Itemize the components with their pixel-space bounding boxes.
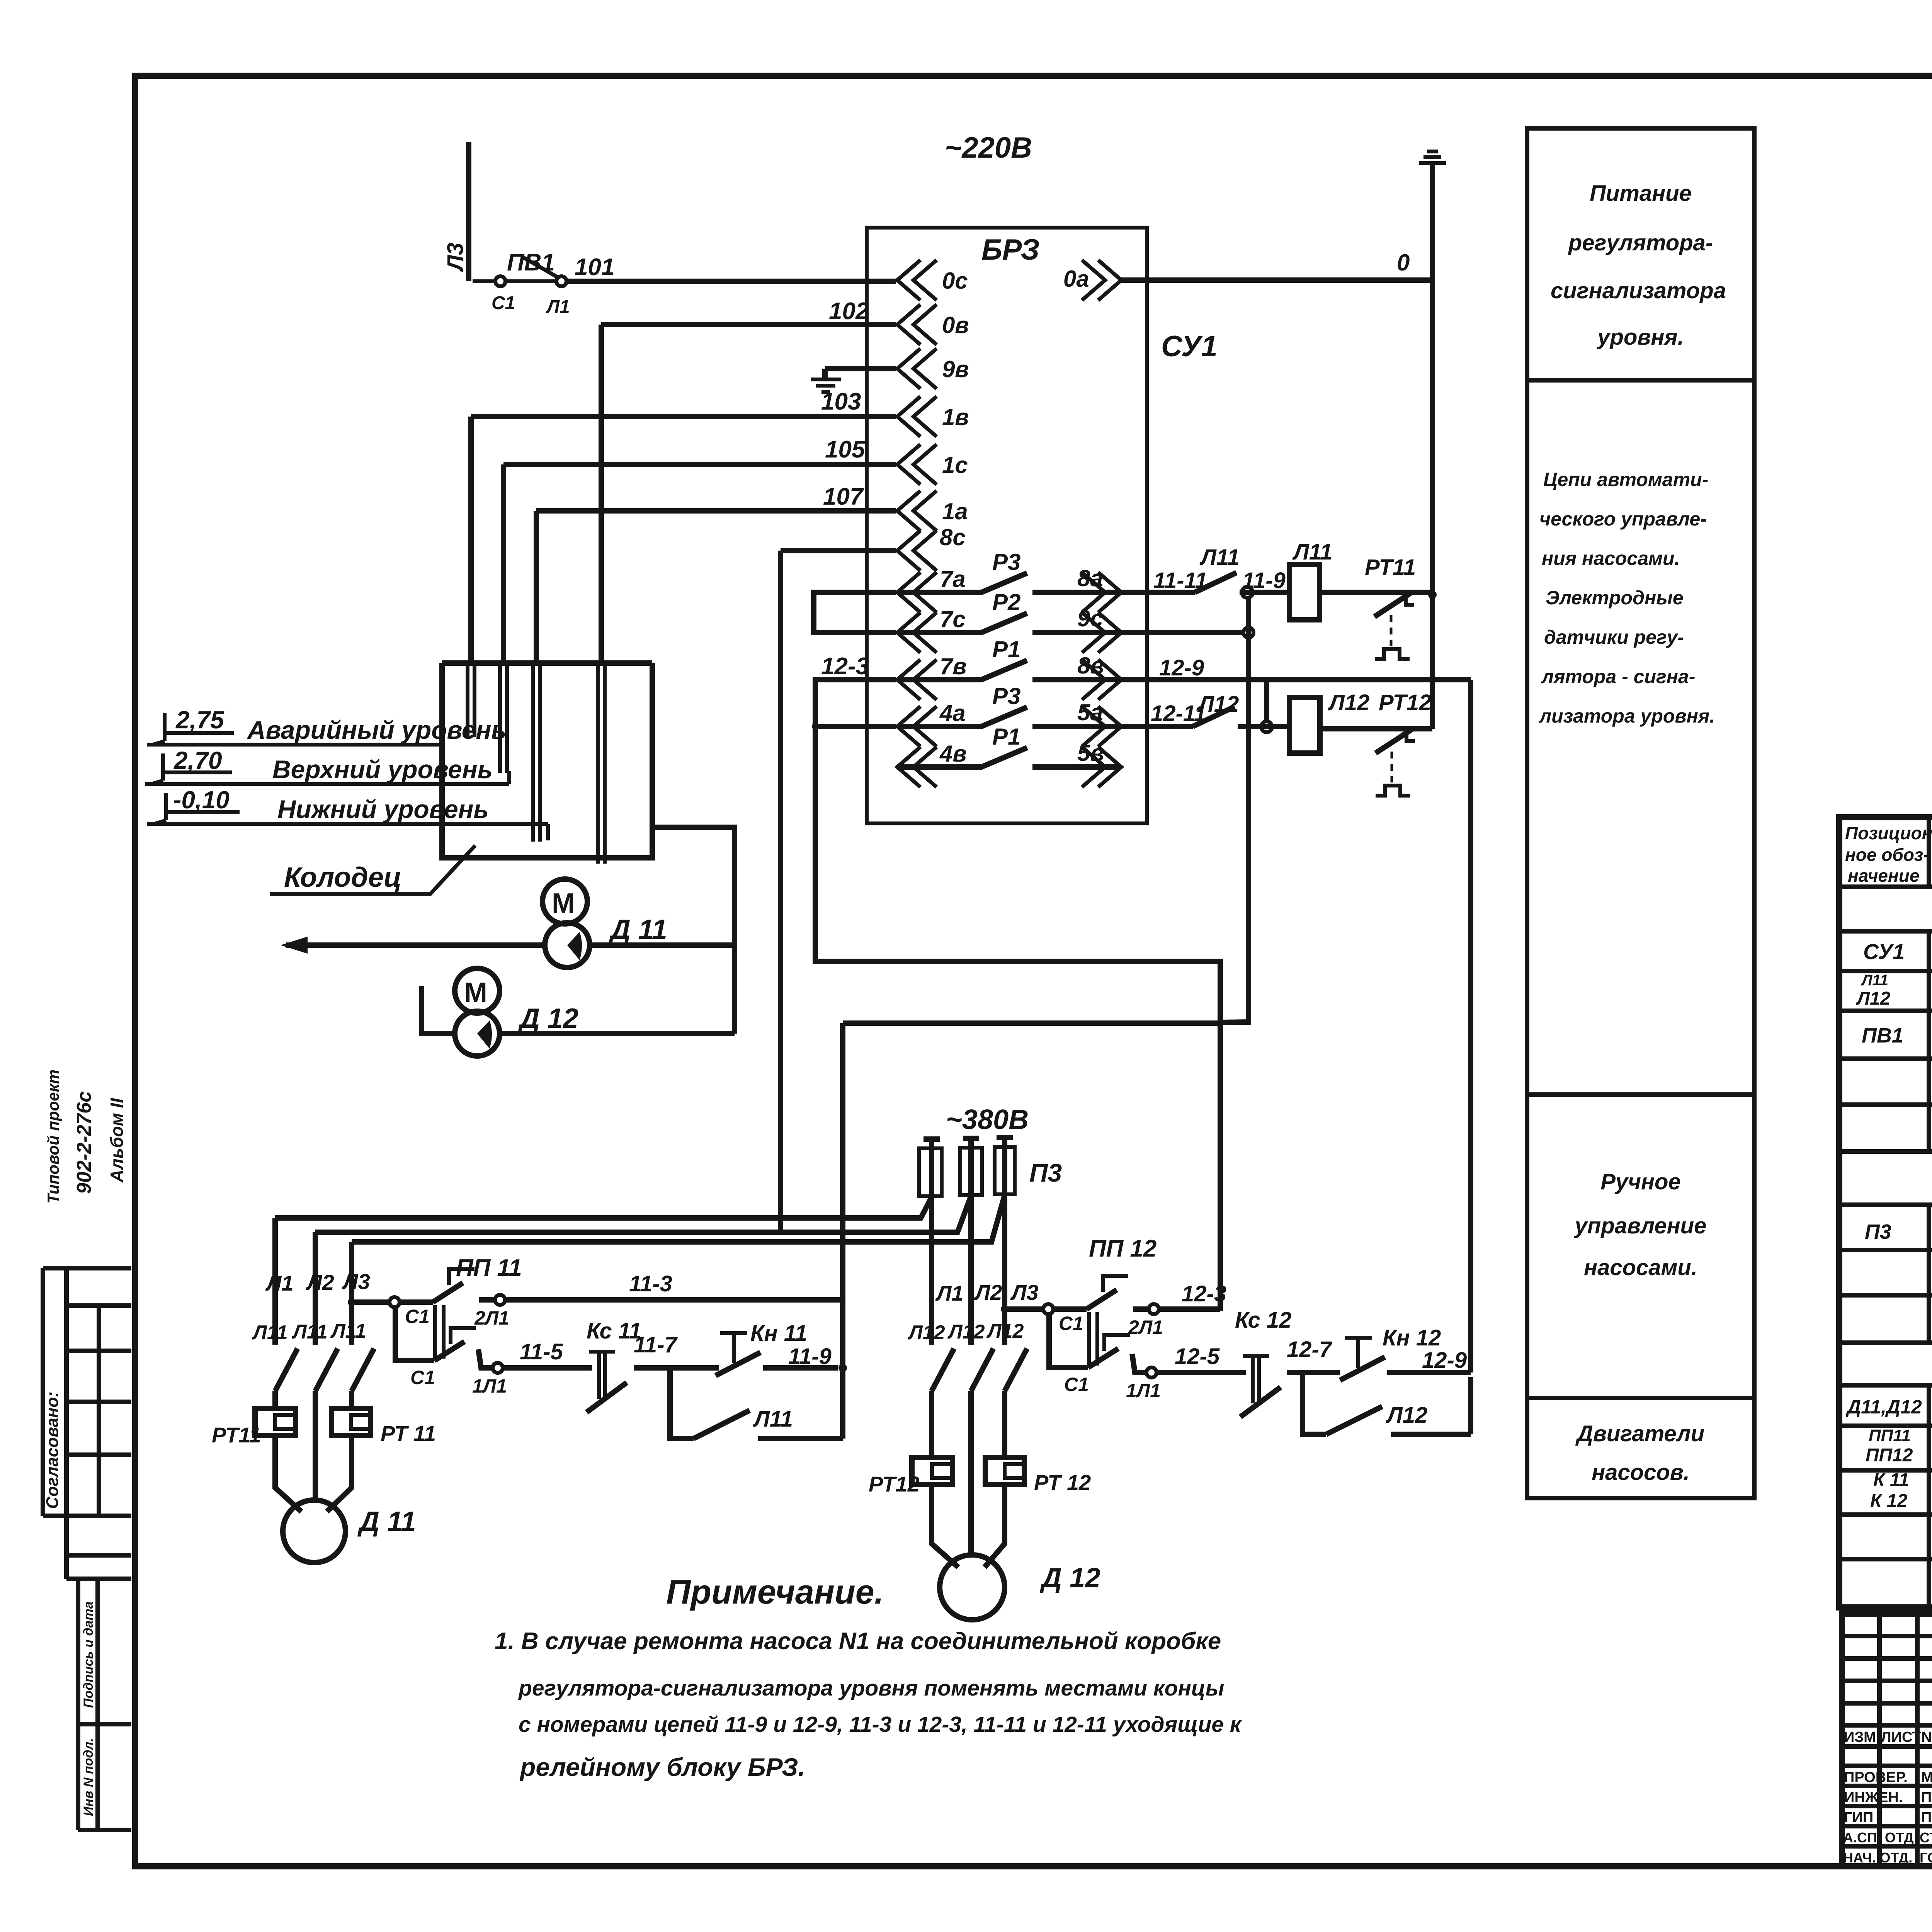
electrode tube 1: [468, 663, 474, 737]
svg-text:1Л1: 1Л1: [472, 1375, 507, 1397]
svg-text:105: 105: [825, 436, 866, 463]
svg-text:Р3: Р3: [992, 549, 1020, 575]
svg-text:ГОЛЬЦМАН: ГОЛЬЦМАН: [1920, 1850, 1932, 1866]
svg-text:ное обоз-: ное обоз-: [1845, 845, 1929, 865]
svg-text:Л2: Л2: [974, 1280, 1002, 1304]
svg-text:Л11: Л11: [1861, 972, 1888, 989]
electrode tube 4: [598, 663, 605, 864]
svg-text:ПП11: ПП11: [1869, 1426, 1911, 1445]
svg-text:7с: 7с: [940, 606, 966, 632]
svg-text:ПП12: ПП12: [1866, 1445, 1913, 1466]
svg-text:насосами.: насосами.: [1584, 1255, 1697, 1280]
wire 0 bus from ground: [1430, 163, 1435, 729]
contactor main contacts L11: [275, 1349, 374, 1391]
feeder line phase 1 to PP11: [275, 1197, 932, 1218]
svg-text:ПУКОВА: ПУКОВА: [1921, 1789, 1932, 1806]
svg-text:Р2: Р2: [992, 589, 1020, 615]
svg-text:С1: С1: [1064, 1374, 1089, 1395]
svg-text:2Л1: 2Л1: [474, 1307, 509, 1329]
svg-text:4а: 4а: [939, 700, 966, 726]
svg-text:2,70: 2,70: [173, 747, 222, 774]
svg-text:1. В случае ремонта насоса N: 1. В случае ремонта насоса N1 на соедини…: [495, 1628, 1221, 1655]
svg-text:Л12: Л12: [1197, 692, 1239, 717]
auxiliary contact L11 self-holding: [670, 1368, 843, 1439]
svg-text:5а: 5а: [1077, 699, 1103, 725]
fuse P3 phase 2: [960, 1148, 982, 1195]
svg-text:11-3: 11-3: [629, 1271, 672, 1296]
wire 101: [566, 279, 896, 284]
start button Kn11: [720, 1333, 747, 1363]
svg-text:0а: 0а: [1063, 266, 1089, 292]
svg-text:12-3: 12-3: [1182, 1281, 1226, 1306]
svg-text:ния насосами.: ния насосами.: [1542, 548, 1680, 569]
node 11-9 junction circle: [1242, 587, 1253, 598]
svg-text:101: 101: [575, 254, 614, 281]
svg-text:Кс 12: Кс 12: [1235, 1308, 1291, 1333]
coil L12: [1289, 697, 1320, 753]
svg-text:12-9: 12-9: [1422, 1348, 1467, 1373]
thermal heater RT12 phase1: [912, 1458, 952, 1485]
svg-text:Ручное: Ручное: [1600, 1169, 1680, 1194]
svg-text:ИНЖЕН.: ИНЖЕН.: [1844, 1789, 1903, 1806]
svg-text:Типовой проект: Типовой проект: [44, 1070, 62, 1204]
wire 7a-7c jumper loop: [814, 592, 896, 633]
svg-text:К 12: К 12: [1870, 1491, 1908, 1511]
svg-text:~220В: ~220В: [945, 131, 1032, 164]
svg-text:Д 11: Д 11: [608, 914, 667, 945]
electrode tube 3: [533, 663, 540, 842]
fuse P3 phase 1: [919, 1148, 942, 1196]
svg-text:107: 107: [823, 483, 864, 510]
level mark 2.75 flag: [153, 713, 234, 745]
thermal heater RT11 phase1: [255, 1408, 296, 1435]
svg-text:Л11: Л11: [1199, 545, 1240, 570]
level mark 2.70 flag: [151, 753, 232, 784]
run 12-3 down to PP12: [1218, 1022, 1223, 1311]
thermal heater RT12 phase3: [985, 1458, 1024, 1485]
svg-text:12-9: 12-9: [1159, 655, 1204, 680]
svg-text:Примечание.: Примечание.: [666, 1573, 884, 1611]
annotation: power supply section: [1551, 181, 1726, 350]
svg-text:Л11: Л11: [753, 1406, 793, 1432]
wire 0a to bus: [1121, 277, 1432, 283]
svg-text:9в: 9в: [942, 356, 969, 382]
contactor main contacts L12: [932, 1349, 1027, 1391]
svg-text:Альбом II: Альбом II: [107, 1098, 127, 1183]
ground at 9v wire: [825, 369, 896, 378]
svg-text:РТ12: РТ12: [1379, 690, 1431, 715]
annotation: automatic control section: [1539, 469, 1715, 727]
svg-text:ПРОВЕР.: ПРОВЕР.: [1844, 1769, 1908, 1786]
wire 8c to BRZ: [781, 551, 896, 1232]
svg-text:Л12: Л12: [907, 1321, 945, 1344]
wire 11-11 with contact L11: [1121, 573, 1289, 592]
BRZ input connectors (left chevrons): [897, 260, 937, 300]
svg-text:ЛИСТ: ЛИСТ: [1881, 1729, 1921, 1745]
svg-text:управление: управление: [1574, 1213, 1707, 1238]
wire 102: [601, 325, 896, 663]
terminal 2L1 and wire 12-3: [1149, 1304, 1159, 1314]
svg-text:СУ1: СУ1: [1161, 330, 1218, 363]
svg-text:С1: С1: [405, 1306, 430, 1327]
thermal contact RT11: [1320, 592, 1432, 617]
svg-text:СУ1: СУ1: [1863, 939, 1905, 964]
svg-text:Цепи автомати-: Цепи автомати-: [1543, 469, 1708, 490]
svg-text:8с: 8с: [940, 524, 966, 550]
svg-text:Л12: Л12: [947, 1321, 985, 1343]
svg-text:7в: 7в: [940, 653, 967, 679]
svg-text:Электродные: Электродные: [1546, 587, 1684, 609]
svg-text:С1: С1: [1059, 1313, 1083, 1334]
discharge pipe with arrow: [286, 942, 735, 948]
svg-text:ИЗМ.: ИЗМ.: [1844, 1729, 1880, 1745]
svg-text:МОСЕЕНКО: МОСЕЕНКО: [1921, 1769, 1932, 1786]
svg-text:Л1: Л1: [546, 297, 570, 317]
electrode tube 2: [500, 663, 507, 773]
motor D12: [940, 1555, 1005, 1620]
svg-text:Р1: Р1: [992, 636, 1020, 662]
motor D11: [283, 1500, 345, 1563]
pump chamber outline: [652, 827, 735, 1034]
svg-text:11-9: 11-9: [1242, 568, 1286, 593]
svg-text:11-9: 11-9: [788, 1344, 832, 1369]
run 11-9 vertical continuation: [840, 1300, 845, 1439]
svg-text:1с: 1с: [942, 452, 968, 478]
svg-text:Кс 11: Кс 11: [587, 1318, 641, 1344]
wire 12-3 from 7v/4a down: [815, 680, 1220, 1022]
svg-text:Д 11: Д 11: [357, 1506, 416, 1537]
suction pipe D12: [422, 986, 455, 1034]
svg-text:102: 102: [829, 298, 869, 325]
level line avariyny: [147, 743, 442, 747]
svg-text:12-5: 12-5: [1175, 1344, 1220, 1369]
wire 105: [503, 464, 896, 663]
run from node 11-9 down: [1220, 597, 1248, 1022]
svg-text:0: 0: [1397, 250, 1410, 276]
svg-text:с номерами цепей 11-9 и 12-: с номерами цепей 11-9 и 12-9, 11-3 и 12-…: [519, 1712, 1242, 1737]
terminal 2L1 and wire 11-3: [495, 1295, 505, 1305]
annotation: manual control section: [1574, 1169, 1707, 1280]
svg-text:М: М: [464, 977, 487, 1008]
svg-text:насосов.: насосов.: [1592, 1460, 1690, 1485]
stop button Ks12: [1243, 1356, 1269, 1403]
phase wires L1 L2 L3 left: [275, 1218, 352, 1345]
svg-text:Подпись и дата: Подпись и дата: [81, 1601, 96, 1708]
svg-text:Кн 12: Кн 12: [1383, 1325, 1441, 1350]
svg-text:РТ11: РТ11: [212, 1423, 261, 1447]
svg-text:Л3: Л3: [1010, 1280, 1039, 1304]
svg-text:лятора - сигна-: лятора - сигна-: [1541, 666, 1695, 687]
pump symbol D11: [545, 923, 590, 968]
level line verkhny: [145, 771, 509, 784]
level mark -0.10 flag: [155, 793, 240, 824]
svg-text:ПВ1: ПВ1: [1862, 1024, 1903, 1047]
terminal 1L1 and wire 12-5: [1146, 1367, 1156, 1378]
svg-text:5в: 5в: [1077, 740, 1104, 766]
svg-text:Л12: Л12: [1386, 1403, 1427, 1428]
svg-text:Д11,Д12: Д11,Д12: [1845, 1396, 1922, 1418]
svg-text:Л12: Л12: [986, 1320, 1024, 1342]
svg-text:Р1: Р1: [992, 724, 1020, 750]
wire 12-11 with contact L12: [1121, 707, 1289, 726]
annotation column box: [1527, 128, 1754, 1498]
svg-text:ПП 12: ПП 12: [1089, 1235, 1156, 1262]
svg-text:11-7: 11-7: [634, 1332, 678, 1357]
start button Kn12: [1345, 1338, 1372, 1368]
svg-text:103: 103: [821, 388, 861, 415]
svg-text:Л1: Л1: [935, 1281, 964, 1305]
svg-text:Позицион-: Позицион-: [1845, 823, 1932, 843]
svg-text:-0,10: -0,10: [173, 786, 230, 814]
pipe D12: [500, 1031, 735, 1036]
wire 107: [536, 511, 896, 663]
svg-text:Л11: Л11: [330, 1320, 366, 1342]
svg-text:8в: 8в: [1077, 653, 1104, 679]
svg-text:902-2-276с: 902-2-276с: [73, 1091, 95, 1194]
svg-text:Питание: Питание: [1590, 181, 1692, 206]
svg-text:РТ12: РТ12: [869, 1472, 920, 1496]
title block left grid: [1879, 1614, 1932, 1866]
svg-text:Л11: Л11: [291, 1321, 328, 1343]
coil L11: [1289, 565, 1320, 620]
svg-text:Д 12: Д 12: [517, 1003, 578, 1034]
junction dot bus/L11 row: [1428, 590, 1437, 599]
title block frame: [1842, 1614, 1932, 1866]
stop button Ks11: [589, 1352, 615, 1399]
svg-text:Колодец: Колодец: [284, 862, 401, 893]
terminal 1L1 and wire 11-5: [493, 1363, 503, 1373]
svg-text:1в: 1в: [942, 404, 969, 430]
pump symbol D12: [455, 1011, 500, 1056]
feeder line phase 2 to PP11: [315, 1196, 971, 1232]
motor symbol M of D12 pump: [455, 968, 500, 1013]
svg-text:1Л1: 1Л1: [1126, 1380, 1161, 1401]
svg-text:ПАВЛОВА: ПАВЛОВА: [1921, 1810, 1932, 1826]
svg-text:ГИП: ГИП: [1844, 1810, 1873, 1826]
svg-text:Нижний уровень: Нижний уровень: [277, 795, 489, 823]
svg-text:М: М: [552, 888, 575, 919]
svg-text:1а: 1а: [942, 498, 968, 524]
switch PV1: [473, 257, 558, 281]
svg-text:Л3: Л3: [443, 243, 468, 272]
svg-text:Инв N подл.: Инв N подл.: [81, 1738, 96, 1816]
rotated stamp text: project id: [43, 1070, 127, 1816]
svg-text:лизатора уровня.: лизатора уровня.: [1539, 705, 1715, 727]
left margin stamp column: [43, 1268, 131, 1830]
level line nizhny: [147, 824, 548, 840]
svg-text:С1: С1: [492, 293, 515, 313]
svg-text:Р3: Р3: [992, 683, 1020, 709]
thermal contact RT12: [1320, 728, 1432, 753]
svg-text:Д 12: Д 12: [1039, 1563, 1100, 1594]
svg-text:регулятора-: регулятора-: [1568, 230, 1713, 255]
svg-text:РТ 11: РТ 11: [381, 1421, 436, 1446]
relay block BRZ box: [867, 228, 1147, 823]
svg-text:Верхний уровень: Верхний уровень: [272, 755, 493, 784]
branch 12-9 to 12-11 node: [1264, 680, 1269, 722]
wire 12-9: [1121, 680, 1471, 1372]
svg-text:сигнализатора: сигнализатора: [1551, 278, 1726, 303]
svg-text:Л3: Л3: [342, 1269, 370, 1294]
parts list table: [1839, 817, 1932, 1607]
fuse P3 phase 3: [995, 1147, 1015, 1194]
svg-text:8а: 8а: [1077, 565, 1103, 591]
horizontal link y2648: [843, 1023, 1220, 1300]
svg-text:Л12: Л12: [1856, 988, 1891, 1009]
svg-text:Л1: Л1: [265, 1271, 294, 1295]
svg-text:Кн 11: Кн 11: [750, 1321, 807, 1346]
svg-text:Л2: Л2: [306, 1270, 334, 1294]
well tank outline: [442, 663, 652, 858]
svg-text:начение: начение: [1848, 866, 1919, 886]
auxiliary contact L12 self-holding: [1303, 1372, 1471, 1434]
svg-text:2Л1: 2Л1: [1128, 1316, 1163, 1338]
svg-text:релейному блоку БРЗ.: релейному блоку БРЗ.: [519, 1753, 805, 1781]
svg-text:А.СП. ОТД: А.СП. ОТД: [1843, 1830, 1914, 1845]
wire L3 supply vertical: [466, 142, 471, 281]
wire 9c to 11-9 run: [1121, 630, 1243, 635]
BRZ internal relay contacts P1-P3: [897, 573, 1121, 592]
svg-text:регулятора-сигнализатора уровн: регулятора-сигнализатора уровня поменять…: [518, 1676, 1224, 1701]
svg-text:Л11: Л11: [252, 1321, 288, 1344]
svg-text:РТ11: РТ11: [1365, 555, 1416, 580]
svg-text:N ДОКУМ.: N ДОКУМ.: [1921, 1729, 1932, 1745]
svg-text:С1: С1: [410, 1367, 435, 1388]
thermal heater RT11 phase3: [332, 1408, 371, 1435]
svg-text:БРЗ: БРЗ: [981, 233, 1039, 266]
svg-text:ческого управле-: ческого управле-: [1539, 508, 1707, 530]
motor symbol M of D11 pump: [543, 879, 587, 924]
svg-text:Л11: Л11: [1292, 539, 1332, 565]
svg-text:СТЕПАНЕНКО: СТЕПАНЕНКО: [1920, 1830, 1932, 1845]
annotation: motors section: [1575, 1421, 1704, 1485]
svg-text:0с: 0с: [942, 268, 968, 294]
svg-text:П3: П3: [1029, 1158, 1062, 1187]
svg-text:9с: 9с: [1077, 605, 1103, 631]
svg-text:Согласовано:: Согласовано:: [43, 1391, 62, 1509]
top ground symbol: [1419, 151, 1446, 163]
svg-text:уровня.: уровня.: [1596, 325, 1684, 350]
svg-text:12-11: 12-11: [1151, 701, 1206, 726]
svg-text:11-11: 11-11: [1153, 568, 1207, 593]
svg-text:7а: 7а: [940, 566, 966, 592]
svg-text:РТ 12: РТ 12: [1034, 1470, 1091, 1495]
svg-text:0в: 0в: [942, 312, 969, 338]
svg-text:11-5: 11-5: [520, 1339, 563, 1364]
svg-text:12-3: 12-3: [821, 653, 869, 680]
feeder line phase 3 to PP11: [352, 1195, 1005, 1242]
svg-text:ПВ1: ПВ1: [507, 249, 555, 276]
wire 103: [471, 417, 896, 663]
svg-text:12-7: 12-7: [1287, 1337, 1333, 1362]
svg-text:4в: 4в: [939, 741, 967, 767]
svg-text:Л12: Л12: [1328, 690, 1369, 715]
svg-text:К 11: К 11: [1873, 1470, 1909, 1490]
svg-text:Двигатели: Двигатели: [1575, 1421, 1704, 1446]
svg-text:П3: П3: [1865, 1220, 1891, 1243]
svg-text:НАЧ. ОТД.: НАЧ. ОТД.: [1843, 1850, 1912, 1866]
svg-text:датчики регу-: датчики регу-: [1544, 626, 1684, 648]
svg-text:2,75: 2,75: [175, 706, 224, 734]
svg-text:~380В: ~380В: [946, 1104, 1029, 1135]
BRZ output connectors (right chevrons): [1082, 260, 1121, 300]
